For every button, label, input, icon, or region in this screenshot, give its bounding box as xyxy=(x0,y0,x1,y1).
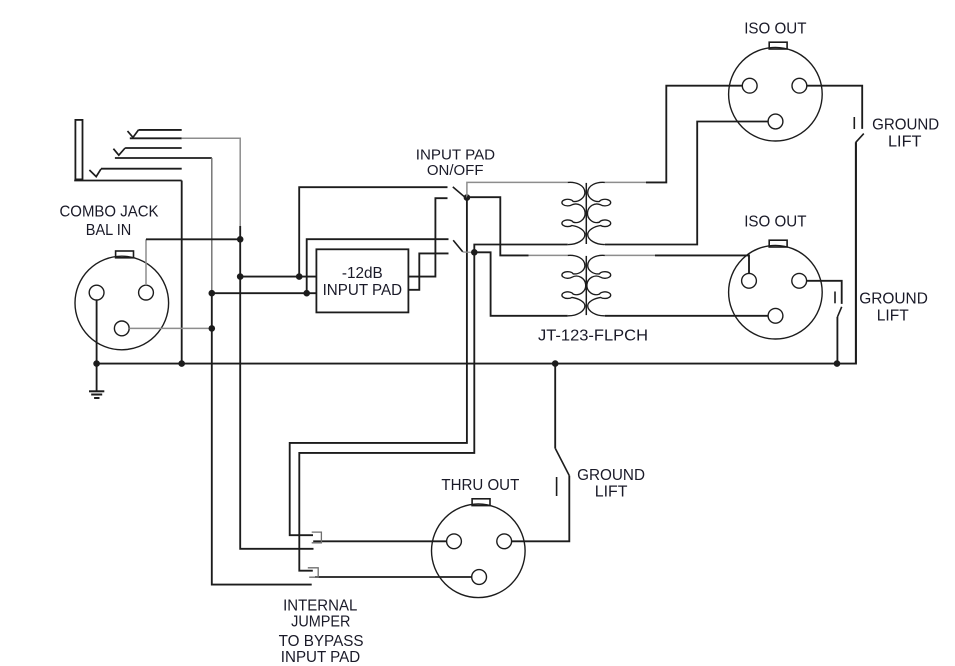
wire T1 secondary bottom to ISO1 pin1 xyxy=(605,122,768,245)
wire ground bus xyxy=(97,142,856,363)
wire ISO1 pin3 to ground lift SW xyxy=(807,86,862,129)
wire ground bus to G3 xyxy=(554,364,556,449)
THRU pin 1 xyxy=(472,570,487,585)
wire bypass riser 2 to switch S2 xyxy=(307,239,449,293)
ground-lift switch G1 contact xyxy=(853,117,855,129)
svg-text:ISO OUT: ISO OUT xyxy=(744,214,807,231)
svg-text:GROUND: GROUND xyxy=(577,467,645,484)
XLR-in pin 2 xyxy=(114,321,129,336)
svg-text:INTERNAL: INTERNAL xyxy=(283,597,357,614)
svg-text:GROUND: GROUND xyxy=(859,290,928,307)
ISO2 pin 2 xyxy=(742,273,757,288)
svg-text:LIFT: LIFT xyxy=(877,308,909,325)
ISO1 pin 2 xyxy=(742,78,757,93)
TRS sleeve contact arm xyxy=(101,168,182,170)
svg-text:INPUT PAD: INPUT PAD xyxy=(281,649,360,666)
switch S1 arm xyxy=(453,187,465,197)
wire pad output 2 to S2 lower throw xyxy=(408,253,448,289)
ground xyxy=(96,364,98,391)
svg-text:LIFT: LIFT xyxy=(595,484,628,501)
THRU pin 2 xyxy=(447,534,462,549)
wire cold line to pad input 1 xyxy=(240,239,316,276)
wire T2 primary top gray segment xyxy=(529,254,568,256)
jumper header bracket upper xyxy=(312,532,322,543)
wire ring continues to thru-out jumper xyxy=(212,293,312,584)
wire pin1 to ground xyxy=(96,300,98,364)
wire TRS ring lower contact xyxy=(115,157,212,159)
node sleeve ground junction xyxy=(178,360,185,367)
wire TRS sleeve line xyxy=(74,180,182,182)
jumper header bracket lower xyxy=(308,568,318,577)
wire tip contact to cold node (gray) xyxy=(182,138,241,226)
svg-text:INPUT PAD: INPUT PAD xyxy=(416,146,495,163)
wire jumper to THRU pin1 xyxy=(315,576,472,578)
node pin2/ring junction xyxy=(209,325,216,332)
wire pin3 riser (gray) xyxy=(145,239,147,285)
wire T1 secondary top to ISO1 pin2 xyxy=(646,86,742,183)
XLR-in pin 1 xyxy=(89,285,104,300)
svg-text:-12dB: -12dB xyxy=(342,265,383,282)
svg-text:GROUND: GROUND xyxy=(872,116,939,133)
svg-text:TO BYPASS: TO BYPASS xyxy=(279,633,364,650)
node thru ground junction xyxy=(552,360,559,367)
wire pad output 1 to S1 lower throw xyxy=(408,198,447,276)
wire T2 secondary top (gray) xyxy=(605,254,655,256)
XLR connector THRU OUT xyxy=(472,499,490,506)
node S2 common xyxy=(471,249,478,256)
ground-lift switch G3 contact xyxy=(556,477,558,496)
ISO1 pin 3 xyxy=(792,78,807,93)
THRU pin 3 xyxy=(497,534,512,549)
TRS sleeve contact spring V xyxy=(89,169,101,177)
wire tip dead-end at jumper xyxy=(240,277,313,549)
wire TRS tip lower contact xyxy=(130,137,182,139)
wire S2 common to T2 primary bottom xyxy=(474,252,567,315)
ISO1 pin 1 xyxy=(768,114,783,129)
node chassis ground junction xyxy=(93,360,100,367)
svg-text:BAL IN: BAL IN xyxy=(86,222,132,239)
wire T2 secondary bottom to ISO2 pin1 xyxy=(605,315,768,317)
XLR connector J1 COMBO JACK BAL IN xyxy=(116,251,134,258)
wire S1 common down to jumper xyxy=(290,198,467,536)
wire ring vertical to hot junction (thin) xyxy=(211,158,213,293)
transformer T1 primary winding xyxy=(562,182,585,244)
ground-lift switch G2 contact xyxy=(834,292,836,304)
svg-text:THRU OUT: THRU OUT xyxy=(441,477,519,494)
node cold/pad junction xyxy=(237,273,244,280)
wire S2 arm link (gray) xyxy=(463,251,472,253)
node hot/ring junction xyxy=(209,290,216,297)
ISO2 pin 3 xyxy=(792,273,807,288)
combo jack J1 TRS body xyxy=(75,120,82,179)
TRS ring contact arm xyxy=(125,147,182,149)
TRS tip contact arm xyxy=(139,129,182,131)
XLR connector ISO OUT 1 xyxy=(769,42,787,49)
wire S1 common to T2 primary top xyxy=(467,197,529,255)
transformer T2 secondary winding xyxy=(587,255,611,316)
wire G3 to THRU pin3 xyxy=(512,476,570,542)
ISO2 pin 1 xyxy=(768,308,783,323)
wire pin2 to ring (gray) xyxy=(129,327,212,329)
TRS ring contact spring V xyxy=(113,148,125,155)
node pad bypass branch 2 xyxy=(303,290,310,297)
wire S1 common to T1 primary top (gray) xyxy=(467,182,568,197)
transformer T1 core xyxy=(585,183,587,244)
wire S2 common down to jumper xyxy=(299,252,474,570)
transformer T1 secondary winding xyxy=(587,182,610,244)
svg-text:LIFT: LIFT xyxy=(888,133,922,150)
wire jumper to THRU pin2 xyxy=(313,540,447,542)
wire pin3 junction line to cold node xyxy=(146,238,240,240)
wire bypass riser 1 to switch S1 xyxy=(299,187,447,276)
svg-text:ISO OUT: ISO OUT xyxy=(744,21,807,38)
node pad bypass branch 1 xyxy=(296,273,303,280)
wire T2 secondary top to ISO2 pin2 xyxy=(655,255,749,273)
node S1 common xyxy=(464,194,471,201)
transformer T2 primary winding xyxy=(562,255,586,316)
node cold junction (pin3/tip) xyxy=(237,236,244,243)
-12dB INPUT PAD block xyxy=(316,249,408,312)
node G2 ground junction xyxy=(834,360,841,367)
wire S2 common to T1 primary bottom xyxy=(474,245,567,253)
svg-text:JUMPER: JUMPER xyxy=(291,614,350,631)
XLR-in pin 3 xyxy=(139,285,154,300)
wire tip vertical to junction xyxy=(239,226,241,239)
transformer T2 core xyxy=(585,256,587,315)
switch S2 arm xyxy=(453,240,463,251)
ground-lift switch G2 arm xyxy=(837,307,841,317)
ground-lift switch G1 arm xyxy=(856,134,864,143)
XLR connector ISO OUT 2 xyxy=(769,240,787,247)
wire G1 to ground bus right end xyxy=(855,142,857,363)
svg-text:INPUT PAD: INPUT PAD xyxy=(323,282,403,299)
wire sleeve to ground bus xyxy=(181,181,183,364)
wire ISO2 pin3 to ground lift xyxy=(807,281,842,304)
svg-text:ON/OFF: ON/OFF xyxy=(427,162,484,179)
svg-text:COMBO JACK: COMBO JACK xyxy=(60,204,159,221)
wire G2 to ground bus xyxy=(836,317,838,364)
TRS tip contact spring V xyxy=(128,130,139,138)
svg-text:JT-123-FLPCH: JT-123-FLPCH xyxy=(538,328,648,345)
wire hot line to pad input 2 xyxy=(212,292,317,294)
ground-lift switch G3 arm xyxy=(555,449,569,476)
wire T1 secondary top (gray) xyxy=(605,181,646,183)
